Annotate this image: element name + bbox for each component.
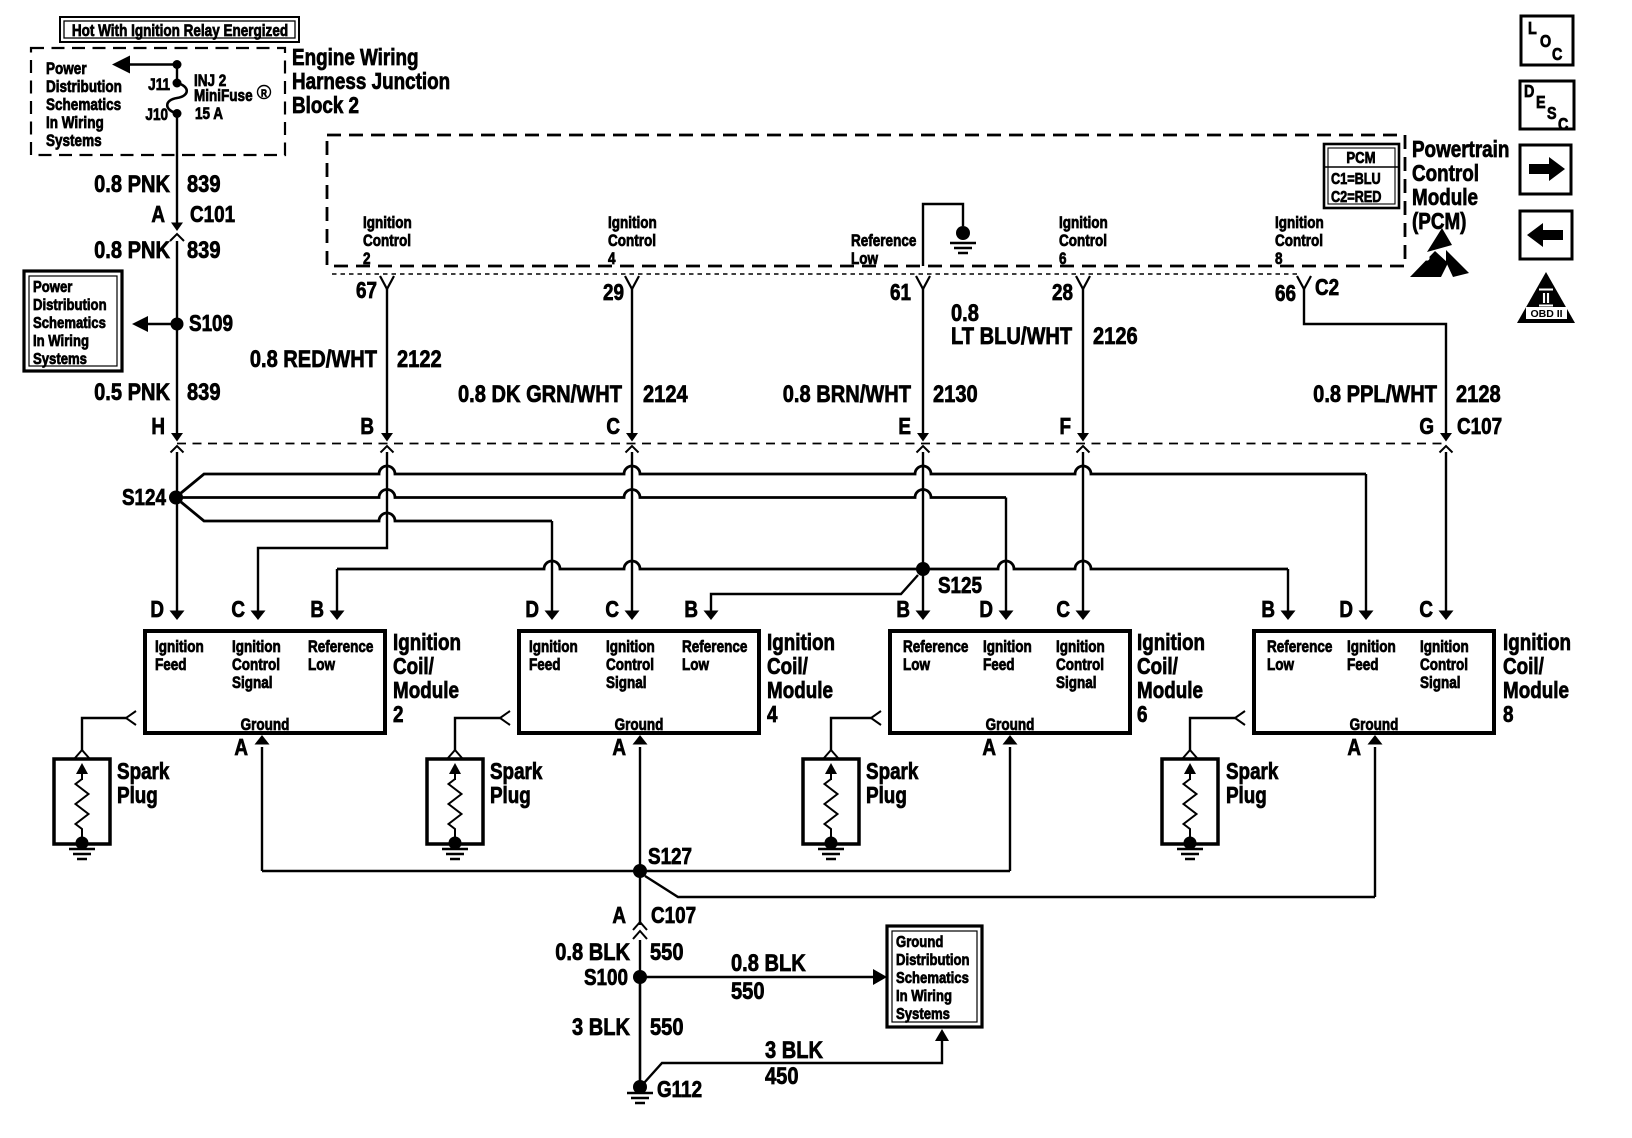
svg-text:Module: Module [767,678,833,703]
svg-text:OBD II: OBD II [1530,308,1562,320]
svg-text:2122: 2122 [397,345,442,372]
svg-text:Control: Control [1275,232,1323,251]
wire: pin28 F to coil3 C [1082,452,1084,614]
svg-text:Ignition: Ignition [1420,638,1469,657]
svg-text:S100: S100 [584,965,628,990]
svg-text:Control: Control [1059,232,1107,251]
wire 3 BLK 450 (G112 to ground distribution) [644,1041,942,1083]
svg-text:O: O [1540,33,1551,52]
svg-text:A: A [234,735,248,760]
svg-text:8: 8 [1503,702,1514,727]
ignition coil/module 2 box [145,631,385,733]
svg-text:B: B [896,597,910,622]
ground bus (coil1 A - S127 - coil3 A) [262,870,1010,872]
svg-text:S125: S125 [938,573,982,598]
svg-text:2: 2 [363,250,371,269]
svg-text:Hot With Ignition Relay Energi: Hot With Ignition Relay Energized [72,22,288,41]
button DESC [1520,81,1574,129]
svg-text:Module: Module [1412,185,1478,210]
svg-text:4: 4 [767,702,778,727]
svg-text:839: 839 [187,236,221,263]
svg-text:Feed: Feed [529,656,561,675]
svg-text:In Wiring: In Wiring [33,333,89,350]
splice S109 [146,323,172,326]
wire 0.5 PNK 839 (S109 to C107 pin H) [176,324,178,437]
svg-text:L: L [1528,20,1537,39]
ground bus spur (S127 to coil4 A) [645,876,1375,897]
svg-text:Signal: Signal [1420,674,1461,693]
svg-text:Module: Module [1137,678,1203,703]
svg-text:3 BLK: 3 BLK [572,1013,630,1040]
svg-text:550: 550 [650,1013,684,1040]
svg-text:Reference: Reference [682,638,747,657]
svg-text:66: 66 [1275,281,1296,306]
splice S127 [633,864,647,878]
svg-text:550: 550 [731,977,765,1004]
svg-text:Feed: Feed [155,656,187,675]
svg-text:Schematics: Schematics [896,970,969,987]
label box: Hot With Ignition Relay Energized [60,17,299,42]
svg-text:4: 4 [608,250,616,269]
svg-text:Systems: Systems [46,132,102,151]
svg-text:C107: C107 [1457,414,1502,439]
connector C107 dashed line [177,443,1446,445]
svg-text:J10: J10 [145,106,168,125]
svg-text:J11: J11 [148,76,170,95]
svg-text:S109: S109 [189,311,233,336]
wire: arrow to power distribution note [130,63,177,66]
fuse INJ 2 MiniFuse 15 A (J11-J10) [176,65,178,84]
svg-text:C: C [1419,597,1433,622]
svg-text:Low: Low [682,656,709,675]
svg-text:Engine Wiring: Engine Wiring [292,45,419,70]
svg-text:Ignition: Ignition [529,638,578,657]
reference low bus (coil1 B - S125 - coil4 B) [337,561,1288,569]
PCM internal ground (reference low) [923,204,963,266]
svg-text:B: B [360,414,374,439]
svg-text:839: 839 [187,378,221,405]
svg-text:Ignition: Ignition [606,638,655,657]
svg-text:Ignition: Ignition [232,638,281,657]
svg-text:2126: 2126 [1093,322,1138,349]
svg-text:C: C [606,414,620,439]
svg-text:450: 450 [765,1062,799,1089]
svg-text:61: 61 [890,280,911,305]
svg-text:Schematics: Schematics [33,315,106,332]
svg-text:G: G [1419,414,1434,439]
svg-text:Ignition: Ignition [983,638,1032,657]
ignition coil/module 6 box [890,631,1130,733]
svg-text:Reference: Reference [903,638,968,657]
svg-text:Coil/: Coil/ [393,654,434,679]
junction block dashed box [31,48,285,155]
svg-text:Plug: Plug [1226,783,1267,808]
PCM legend box: PCM C1=BLU C2=RED [1324,144,1399,208]
svg-text:MiniFuse: MiniFuse [194,87,253,106]
wire 0.8 BRN/WHT 2130 (pin 61 to C107 E) [922,288,924,437]
note box: Power Distribution Schematics In Wiring Systems (left) [24,271,122,371]
button LOC [1521,16,1573,65]
svg-text:Ignition: Ignition [1056,638,1105,657]
svg-text:28: 28 [1052,280,1073,305]
svg-text:Spark: Spark [117,759,170,784]
spark plug 1 [54,759,110,844]
svg-text:Coil/: Coil/ [1503,654,1544,679]
note box: Ground Distribution Schematics In Wiring Systems [887,926,982,1027]
svg-text:Distribution: Distribution [46,78,122,97]
spark plug 3 [803,759,859,844]
ignition coil/module 4 box [519,631,759,733]
svg-text:C101: C101 [190,202,235,227]
svg-text:Ignition: Ignition [363,214,412,233]
svg-text:0.8 RED/WHT: 0.8 RED/WHT [250,345,377,372]
wire: S127 down to connector C107 A [639,871,641,925]
svg-text:A: A [1347,735,1361,760]
wire 0.8 LT BLU/WHT 2126 (pin 28 to C107 F) [1082,288,1084,437]
PCM connector C1 thin dashed line [332,273,1298,275]
svg-text:Low: Low [903,656,930,675]
svg-text:15 A: 15 A [195,105,223,124]
svg-text:Power: Power [46,60,87,79]
svg-text:Power: Power [33,279,73,296]
svg-text:Control: Control [232,656,280,675]
svg-text:6: 6 [1059,250,1067,269]
svg-text:2: 2 [393,702,403,727]
wire: coil 1 ground to spark plug 1 [82,718,126,750]
svg-text:Spark: Spark [866,759,919,784]
svg-text:Control: Control [606,656,654,675]
svg-text:Control: Control [1412,161,1479,186]
splice S125 [916,562,930,576]
svg-text:Ignition: Ignition [155,638,204,657]
svg-text:Coil/: Coil/ [767,654,808,679]
svg-text:E: E [1536,94,1546,113]
svg-text:C2=RED: C2=RED [1331,189,1381,206]
svg-text:Plug: Plug [490,783,531,808]
ESD sensitivity symbol [1427,228,1452,252]
ignition feed bus 2 (S124 to coil3 D) [182,490,1006,498]
svg-text:Systems: Systems [896,1006,950,1023]
wire 0.8 PNK 839 (fuse to C101) [176,114,178,229]
svg-text:Ground: Ground [1350,716,1399,735]
wire: coil 3 ground to spark plug 3 [831,718,871,750]
wire: S125 spur to coil2 B [711,575,918,614]
svg-text:In Wiring: In Wiring [896,988,952,1005]
svg-text:550: 550 [650,938,684,965]
spark plug 2 [427,759,483,844]
svg-text:C: C [1558,116,1569,135]
svg-text:Reference: Reference [1267,638,1332,657]
svg-text:0.8 PNK: 0.8 PNK [94,236,170,263]
svg-text:3 BLK: 3 BLK [765,1036,823,1063]
svg-text:Ground: Ground [615,716,664,735]
svg-text:Control: Control [1420,656,1468,675]
svg-text:0.8 BRN/WHT: 0.8 BRN/WHT [783,380,912,407]
svg-text:Systems: Systems [33,351,87,368]
svg-text:Coil/: Coil/ [1137,654,1178,679]
svg-text:R: R [261,88,267,99]
wire 0.8 BLK 550 (S100 to ground distribution) [640,976,875,979]
svg-text:B: B [1261,597,1275,622]
svg-text:Spark: Spark [1226,759,1279,784]
svg-text:C: C [231,597,245,622]
svg-text:Reference: Reference [308,638,373,657]
svg-text:0.8 PPL/WHT: 0.8 PPL/WHT [1313,380,1437,407]
svg-text:PCM: PCM [1346,150,1375,167]
svg-text:E: E [898,414,911,439]
svg-text:Ignition: Ignition [608,214,657,233]
svg-text:Reference: Reference [851,232,916,251]
splice S124 [169,491,183,505]
svg-text:A: A [151,202,165,227]
spark plug 4 [1162,759,1218,844]
svg-text:6: 6 [1137,702,1147,727]
svg-text:Schematics: Schematics [46,96,121,115]
svg-text:2130: 2130 [933,380,978,407]
svg-text:Signal: Signal [1056,674,1097,693]
svg-text:Signal: Signal [606,674,647,693]
svg-text:Ground: Ground [241,716,290,735]
svg-text:C: C [605,597,619,622]
wire: pin67 B to coil1 C [258,452,387,614]
svg-text:B: B [310,597,324,622]
svg-text:G112: G112 [657,1077,702,1102]
svg-text:Distribution: Distribution [33,297,107,314]
svg-text:D: D [1339,597,1353,622]
wire: pin61 E down to S125 [922,452,924,569]
wire: pin29 C to coil2 C [631,452,633,614]
svg-text:A: A [612,735,626,760]
svg-text:Ignition: Ignition [767,630,835,655]
svg-text:Ignition: Ignition [1137,630,1205,655]
wire: coil 2 ground to spark plug 2 [455,718,500,750]
svg-text:Ground: Ground [986,716,1035,735]
svg-text:(PCM): (PCM) [1412,209,1466,234]
button next (right arrow) [1520,145,1571,194]
OBD II icon [1517,272,1575,323]
svg-text:2128: 2128 [1456,380,1501,407]
svg-text:D: D [150,597,164,622]
svg-text:Module: Module [1503,678,1569,703]
svg-text:In Wiring: In Wiring [46,114,104,133]
svg-text:Powertrain: Powertrain [1412,137,1509,162]
svg-text:0.8 BLK: 0.8 BLK [555,938,630,965]
svg-text:A: A [612,903,626,928]
svg-text:Harness Junction: Harness Junction [292,69,450,94]
svg-text:Spark: Spark [490,759,543,784]
svg-text:Distribution: Distribution [896,952,970,969]
svg-text:LT BLU/WHT: LT BLU/WHT [951,322,1072,349]
svg-text:C: C [1056,597,1070,622]
svg-text:F: F [1059,414,1071,439]
svg-text:Plug: Plug [866,783,907,808]
wire 0.8 DK GRN/WHT 2124 (pin 29 to C107 C) [631,288,633,437]
svg-text:D: D [1524,83,1534,102]
svg-text:Low: Low [851,250,878,269]
svg-text:Feed: Feed [1347,656,1379,675]
svg-text:Feed: Feed [983,656,1015,675]
svg-text:2124: 2124 [643,380,688,407]
svg-text:C: C [1552,46,1563,65]
svg-text:Ignition: Ignition [1059,214,1108,233]
ignition feed bus 3 (S124 to coil2 D) [181,502,552,521]
svg-text:Signal: Signal [232,674,273,693]
svg-text:0.8 BLK: 0.8 BLK [731,949,806,976]
svg-text:0.8 DK GRN/WHT: 0.8 DK GRN/WHT [458,380,622,407]
wire: S125 to coil3 B [922,569,924,614]
wire 3 BLK 550 (S100 to G112) [639,977,642,1087]
svg-text:Ground: Ground [896,934,943,951]
ground G112 [633,1080,647,1094]
svg-text:Low: Low [308,656,335,675]
wire 0.8 PNK 839 (C101 to S109) [176,241,178,324]
svg-text:0.5 PNK: 0.5 PNK [94,378,170,405]
svg-text:Ignition: Ignition [393,630,461,655]
svg-text:Ignition: Ignition [1347,638,1396,657]
wire 0.8 PPL/WHT 2128 (pin 66 C2 to C107 G) [1304,288,1446,437]
ignition coil/module 8 box [1254,631,1494,733]
svg-text:Ignition: Ignition [1275,214,1324,233]
svg-text:0.8 PNK: 0.8 PNK [94,170,170,197]
svg-text:Ignition: Ignition [1503,630,1571,655]
svg-text:C1=BLU: C1=BLU [1331,171,1381,188]
wire: C107 H down to coil1 D through S124 [176,452,178,614]
svg-text:67: 67 [356,278,377,303]
svg-text:8: 8 [1275,250,1283,269]
svg-text:S124: S124 [122,485,166,510]
svg-text:S: S [1547,105,1557,124]
svg-text:29: 29 [603,280,624,305]
svg-text:C107: C107 [651,903,696,928]
splice S100 [633,970,647,984]
wire: coil 4 ground to spark plug 4 [1190,718,1235,750]
svg-text:B: B [684,597,698,622]
svg-text:839: 839 [187,170,221,197]
svg-text:Low: Low [1267,656,1294,675]
svg-text:H: H [151,414,165,439]
svg-text:Control: Control [608,232,656,251]
svg-text:C2: C2 [1315,275,1339,300]
svg-text:Control: Control [363,232,411,251]
PCM dashed outline box [327,135,1405,266]
svg-text:Module: Module [393,678,459,703]
wire 0.8 BLK 550 (C107 A to S100) [639,940,641,977]
svg-text:D: D [979,597,993,622]
svg-text:S127: S127 [648,844,692,869]
svg-text:D: D [525,597,539,622]
wire: C107 G to coil4 C [1445,452,1447,614]
svg-text:Control: Control [1056,656,1104,675]
ignition feed bus 1 (S124 to coil4 D) [181,466,1366,493]
svg-text:Plug: Plug [117,783,158,808]
svg-text:Block 2: Block 2 [292,93,359,118]
svg-text:A: A [982,735,996,760]
wire 0.8 RED/WHT 2122 (pin 67 to C107 B) [386,288,388,437]
button back (left arrow) [1520,211,1572,259]
